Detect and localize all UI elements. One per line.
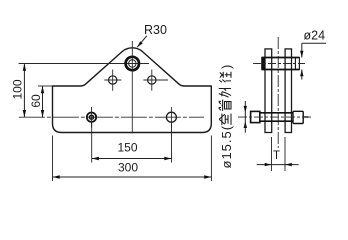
centerline horizontal through lower holes bbox=[19, 116, 204, 118]
svg-text:T: T bbox=[273, 150, 280, 162]
lower hole left (grommet) bbox=[87, 113, 96, 122]
svg-text:ø24: ø24 bbox=[304, 29, 326, 43]
lower tube (phi15.5) bbox=[260, 113, 293, 121]
lower tube right nut bbox=[293, 111, 303, 123]
centerline vertical through apex bbox=[131, 41, 133, 134]
tube end weld blob bbox=[261, 57, 265, 70]
plate outline (front view silhouette) bbox=[53, 48, 212, 133]
side view plate 1 bbox=[265, 49, 272, 133]
svg-text:60: 60 bbox=[29, 94, 43, 108]
svg-text:150: 150 bbox=[117, 141, 137, 155]
char guan bbox=[219, 100, 231, 111]
upper hole right bbox=[148, 76, 156, 84]
lower tube left nut bbox=[251, 111, 260, 122]
dim phi24 bbox=[301, 43, 303, 79]
threaded tail bbox=[303, 116, 308, 118]
lower hole right bbox=[166, 112, 176, 122]
upper hole left bbox=[109, 76, 117, 84]
char jing bbox=[219, 72, 231, 83]
char tao bbox=[219, 114, 231, 125]
dim 300 bbox=[53, 176, 212, 178]
extension line plate top left bbox=[38, 85, 53, 87]
dim 150 bbox=[92, 158, 172, 160]
vertical label phi15.5 (sleeve OD) bbox=[219, 65, 234, 169]
upper tube (phi24) bbox=[262, 58, 300, 70]
svg-text:): ) bbox=[219, 65, 234, 69]
side view vertical centerline bbox=[277, 37, 279, 148]
R30 leader arrow bbox=[137, 36, 147, 47]
upper tube centerline bbox=[253, 63, 305, 65]
svg-text:R30: R30 bbox=[144, 23, 167, 37]
svg-text:300: 300 bbox=[118, 161, 138, 175]
dim 100 line bbox=[23, 64, 25, 118]
svg-text:ø15.5(: ø15.5( bbox=[219, 125, 234, 169]
dim T bbox=[257, 164, 299, 166]
side view plate 2 bbox=[285, 49, 291, 133]
lower tube centerline bbox=[238, 116, 312, 118]
dim phi15.5 arrows bbox=[244, 101, 246, 133]
apex hole U-bolt boss bbox=[126, 57, 139, 70]
centerline horizontal through apex hole bbox=[19, 63, 149, 65]
svg-text:100: 100 bbox=[11, 79, 25, 99]
dim 60 line bbox=[42, 86, 44, 117]
char wai bbox=[219, 89, 231, 98]
